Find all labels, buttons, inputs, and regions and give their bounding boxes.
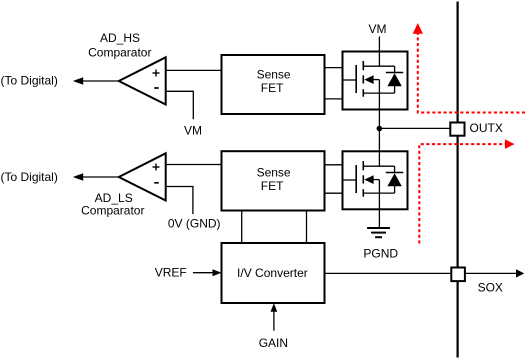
svg-text:AD_HS: AD_HS bbox=[100, 31, 140, 45]
svg-text:GAIN: GAIN bbox=[259, 336, 288, 350]
wire U3 to Q1 lower bbox=[325, 98, 343, 100]
svg-text:VM: VM bbox=[369, 22, 387, 36]
wire U1 output bbox=[83, 80, 119, 82]
svg-text:SOX: SOX bbox=[478, 281, 503, 295]
pin SOX terminal bbox=[451, 268, 465, 282]
wire U2 + input bbox=[166, 164, 222, 166]
svg-text:VREF: VREF bbox=[155, 266, 187, 280]
wire U3 to Q1 upper bbox=[325, 67, 343, 69]
arrow SOX output bbox=[516, 269, 524, 277]
wire U5 output to SOX bbox=[325, 272, 517, 274]
wire U4 to Q2 lower bbox=[325, 192, 343, 194]
wire GAIN input bbox=[273, 312, 275, 331]
transistor Q1 outline box (high-side FET) bbox=[343, 52, 408, 110]
node junction at OUTX bbox=[377, 126, 383, 132]
transistor Q1 symbol (high-side NMOS) bbox=[343, 61, 395, 97]
svg-text:VM: VM bbox=[184, 124, 202, 138]
svg-text:(To Digital): (To Digital) bbox=[1, 170, 58, 184]
svg-text:FET: FET bbox=[261, 81, 284, 95]
wire U1 + input bbox=[166, 69, 222, 71]
block U3 Sense FET (high-side) bbox=[222, 55, 325, 114]
wire U2 output bbox=[83, 176, 119, 178]
block U5 I/V Converter bbox=[222, 243, 325, 303]
arrow VREF into U5 bbox=[213, 269, 222, 276]
diode D1 body diode of Q1 bbox=[386, 66, 404, 93]
comparator U2 AD_LS bbox=[119, 153, 166, 200]
svg-text:(To Digital): (To Digital) bbox=[1, 74, 58, 88]
arrow GAIN into U5 bbox=[271, 303, 278, 311]
svg-text:FET: FET bbox=[261, 179, 284, 193]
svg-text:OUTX: OUTX bbox=[470, 121, 503, 135]
pin OUTX terminal bbox=[450, 123, 464, 136]
wire VM to Q1 drain bbox=[378, 37, 380, 67]
wire U1 - input to VM reference bbox=[166, 91, 194, 119]
wire U4 to U5 right bbox=[306, 211, 308, 244]
svg-text:Sense: Sense bbox=[257, 165, 291, 179]
wire VREF input bbox=[193, 272, 213, 274]
wire junction to OUTX pin bbox=[379, 127, 450, 129]
comparator U1 AD_HS bbox=[119, 57, 166, 104]
wire Q2 source to ground bbox=[378, 193, 380, 228]
transistor Q2 outline box (low-side FET) bbox=[343, 151, 408, 209]
svg-text:Comparator: Comparator bbox=[81, 203, 144, 217]
wire high-side current path (red dashed) bbox=[418, 34, 525, 113]
ground PGND bbox=[367, 228, 390, 237]
arrow high-side current path up bbox=[413, 23, 423, 34]
svg-text:Sense: Sense bbox=[257, 67, 291, 81]
svg-text:I/V Converter: I/V Converter bbox=[237, 266, 308, 280]
label AD_HS Comparator bbox=[88, 31, 151, 60]
wire low-side current path (red dashed) bbox=[419, 144, 505, 243]
arrow low-side current path right bbox=[505, 139, 515, 149]
wire U4 to U5 left bbox=[241, 211, 243, 244]
arrow U1 output (to digital) bbox=[73, 77, 83, 85]
wire device pin bus (vertical) bbox=[457, 2, 459, 358]
svg-text:0V (GND): 0V (GND) bbox=[168, 216, 221, 230]
arrow U2 output (to digital) bbox=[73, 173, 83, 181]
wire U4 to Q2 upper bbox=[325, 164, 343, 166]
wire U2 - input to 0V bbox=[166, 187, 193, 215]
label AD_LS Comparator bbox=[81, 191, 144, 217]
block U4 Sense FET (low-side) bbox=[222, 151, 325, 210]
svg-text:Comparator: Comparator bbox=[88, 45, 151, 59]
wire Q1 source to Q2 drain bbox=[378, 93, 380, 166]
transistor Q2 symbol (low-side NMOS) bbox=[343, 161, 395, 197]
diode D2 body diode of Q2 bbox=[386, 166, 404, 193]
svg-text:PGND: PGND bbox=[363, 247, 398, 261]
